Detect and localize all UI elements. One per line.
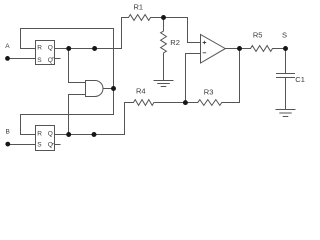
wire: op-amp minus input from R4/R3 junction (186, 54, 201, 103)
latch U2 pin labels R Q S Q' (37, 131, 52, 149)
wire: AND gate top input from junction on Q-A line (69, 49, 86, 83)
svg-text:R: R (37, 131, 42, 138)
junction node R4/R3 at minus input (183, 100, 188, 105)
capacitor C1 plates (277, 74, 295, 78)
capacitor C1 bottom lead (285, 78, 287, 110)
capacitor C1 top lead from node S (285, 49, 287, 74)
junction node on Q-B line (second dot) (92, 132, 97, 137)
latch U1 pin labels R Q S Q' (37, 44, 52, 64)
latch U1 body (SR latch A) (36, 41, 55, 65)
junction node at op-amp output (237, 46, 242, 51)
junction node on Q-A line to AND top input (66, 46, 71, 51)
op-amp U4 triangle (201, 35, 226, 64)
svg-text:S: S (282, 31, 287, 40)
svg-text:Q: Q (48, 44, 53, 51)
svg-text:R3: R3 (204, 87, 214, 96)
latch U2 Q-bar output stub (55, 144, 61, 146)
input terminal A dot (5, 56, 10, 61)
svg-text:R5: R5 (253, 30, 263, 39)
svg-text:S: S (37, 142, 42, 149)
latch U1 Q-bar output stub (55, 58, 61, 60)
wire: latch U1 Q output right, up at x=121, resistor R1 zigzag, node, down to op-amp + input (55, 15, 201, 49)
ground symbol under C1 (276, 110, 295, 117)
op-amp minus input symbol (203, 52, 207, 54)
wire: latch U2 Q output line, up at x=124.5, resistor R4 zigzag, node, resistor R3 zigzag, up to op-amp output (55, 49, 240, 135)
resistor R2 vertical zigzag from R1/R2 node down to ground (161, 18, 167, 81)
wire: AND gate bottom input down to junction on Q-B line (69, 95, 86, 135)
svg-text:Q: Q (48, 131, 53, 138)
svg-text:Q: Q (48, 57, 53, 64)
junction node on Q-A line (second dot) (92, 46, 97, 51)
junction node R1/R2 (161, 15, 166, 20)
input terminal B dot (5, 142, 10, 147)
junction node S (283, 46, 288, 51)
latch U1 Q-bar prime tick (52, 57, 53, 58)
junction node on Q-B line to AND bottom input (66, 132, 71, 137)
latch U2 body (SR latch B) (36, 126, 55, 151)
wire: reset loop from AND output to R inputs of latches U1 and U2 (21, 29, 114, 135)
ground symbol under R2 (154, 81, 173, 87)
wire: op-amp output through resistor R5 zigzag to node S (225, 46, 285, 52)
op-amp plus input symbol (203, 41, 207, 45)
svg-text:R4: R4 (136, 86, 146, 95)
wire: AND gate output stub to reset vertical (103, 88, 114, 90)
svg-text:R2: R2 (170, 38, 180, 47)
svg-text:B: B (6, 128, 10, 135)
svg-text:R1: R1 (134, 2, 144, 11)
wire: input A to S pin of latch U1 (8, 58, 36, 60)
svg-text:Q: Q (48, 142, 53, 149)
svg-text:C1: C1 (295, 75, 305, 84)
svg-text:R: R (37, 44, 42, 51)
latch U2 Q-bar prime tick (52, 143, 53, 144)
AND gate U3 body (86, 81, 104, 97)
svg-text:S: S (37, 57, 42, 64)
svg-text:A: A (5, 43, 10, 50)
wire: input B to S pin of latch U2 (8, 144, 36, 146)
junction node at AND gate output (111, 86, 116, 91)
